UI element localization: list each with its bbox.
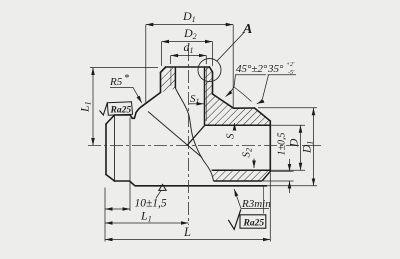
Ra25 surface mark right bbox=[228, 210, 241, 230]
seat line bbox=[214, 180, 263, 182]
boss top-left chamfer bbox=[161, 67, 166, 72]
centerline horizontal bbox=[88, 145, 322, 147]
bore top line bbox=[205, 124, 271, 126]
body outline bbox=[106, 67, 270, 186]
left face bbox=[105, 124, 107, 175]
dimension D1 top bbox=[146, 25, 233, 107]
boss top bbox=[166, 66, 210, 68]
boss inner right wall bbox=[204, 67, 206, 125]
boss left outer wall bbox=[160, 72, 162, 92]
svg-text:D1: D1 bbox=[182, 9, 196, 24]
left top chamfer bbox=[106, 115, 115, 124]
thread major line left bbox=[170, 68, 172, 87]
thread relief groove bbox=[130, 106, 142, 119]
svg-text:A: A bbox=[242, 22, 252, 37]
detail circle A bbox=[198, 59, 221, 82]
L1 left vertical dimension bbox=[90, 67, 158, 69]
left bottom chamfer bbox=[106, 175, 115, 182]
internal cone diagonal short bbox=[187, 126, 205, 146]
svg-text:L: L bbox=[183, 225, 191, 239]
L1 bottom dimension bbox=[105, 222, 189, 224]
dimension 1+-0.5 bbox=[289, 159, 291, 171]
right side extension lines bbox=[258, 108, 317, 186]
svg-text:35°: 35° bbox=[267, 63, 284, 75]
svg-text:Ra25: Ra25 bbox=[243, 219, 265, 229]
dimension d1 bbox=[171, 56, 207, 65]
L bottom dimension bbox=[269, 173, 271, 242]
hatch right wall and top band bbox=[205, 67, 271, 125]
boss right outer wall bbox=[212, 72, 214, 94]
svg-text:10±1,5: 10±1,5 bbox=[135, 198, 167, 210]
seat chamfer bbox=[262, 171, 270, 181]
boss top-right chamfer bbox=[210, 67, 213, 72]
leader line above right Ra25 box bbox=[263, 187, 265, 214]
svg-text:1±0,5: 1±0,5 bbox=[277, 133, 288, 156]
right cone 45deg bbox=[213, 94, 234, 108]
dimension D right bbox=[300, 125, 302, 170]
svg-text:Ra25: Ra25 bbox=[110, 106, 132, 116]
top line left cylinder bbox=[115, 114, 131, 116]
svg-text:d1: d1 bbox=[184, 40, 194, 55]
boss inner left wall bbox=[174, 67, 176, 88]
svg-text:D1: D1 bbox=[302, 141, 315, 154]
thread major line right bbox=[205, 68, 207, 122]
shelf under 35 bbox=[268, 74, 297, 76]
hatch bottom band bbox=[212, 170, 271, 181]
right top flat bbox=[234, 107, 255, 109]
svg-text:L1: L1 bbox=[140, 209, 152, 224]
shelf under 45 bbox=[235, 74, 266, 76]
chamfer edge line left bbox=[114, 116, 116, 181]
svg-text:L1: L1 bbox=[78, 101, 93, 113]
svg-text:*: * bbox=[124, 73, 129, 84]
svg-text:45°±2°: 45°±2° bbox=[236, 63, 268, 75]
break line curve bbox=[175, 88, 213, 181]
Ra25 surface mark left bbox=[100, 103, 108, 115]
svg-text:S2: S2 bbox=[241, 148, 254, 158]
svg-text:D: D bbox=[289, 138, 301, 148]
dimension D1 right bbox=[313, 108, 315, 186]
leader to A bbox=[217, 33, 244, 61]
triangle marker bbox=[159, 185, 166, 191]
45 leader and arc bbox=[226, 75, 236, 97]
right face bbox=[269, 121, 271, 171]
right end chamfer 35deg bbox=[255, 108, 271, 121]
35 leader bbox=[257, 75, 269, 104]
hatch boss left wall bbox=[161, 67, 176, 93]
bottom line bbox=[115, 181, 267, 186]
left cone to boss bbox=[143, 93, 161, 106]
svg-text:+2': +2' bbox=[286, 62, 295, 68]
dimension D2 bbox=[162, 42, 213, 66]
svg-text:R5: R5 bbox=[109, 76, 123, 88]
bore bottom line bbox=[212, 169, 271, 171]
centerline boss vertical bbox=[188, 48, 190, 225]
svg-text:S: S bbox=[225, 133, 237, 139]
svg-text:R3min: R3min bbox=[241, 198, 271, 210]
svg-text:D2: D2 bbox=[183, 26, 197, 41]
internal cone diagonal long bbox=[148, 112, 202, 158]
bottom dimension 10+-1.5 bbox=[104, 188, 106, 242]
